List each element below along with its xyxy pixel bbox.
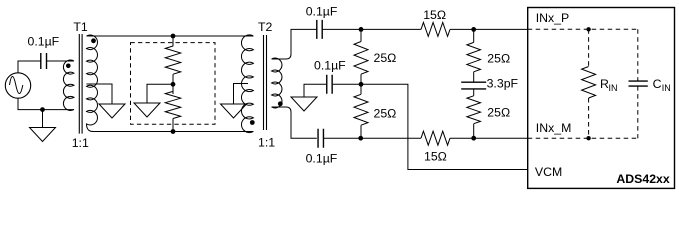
transformer T2 secondary winding [272, 58, 282, 108]
wire bottom 15 ohm to INx_M [450, 137, 528, 139]
node common mode junction [359, 82, 364, 87]
node INx_M shunt [471, 136, 476, 141]
ground (T2 center tap) [221, 104, 247, 118]
resistor 25 ohm (lower right branch) [467, 89, 481, 138]
wire T2 secondary bottom lead [272, 107, 317, 138]
svg-text:0.1µF: 0.1µF [28, 35, 60, 49]
wire capacitor to T1 primary [47, 60, 75, 62]
svg-text:0.1µF: 0.1µF [314, 59, 346, 73]
wire source bottom rail [18, 98, 74, 109]
resistor R_IN [588, 29, 590, 66]
svg-text:0.1µF: 0.1µF [306, 5, 338, 19]
T2 secondary polarity dot [278, 101, 283, 106]
resistor lead lower [172, 119, 174, 132]
capacitor C1 0.1uF (input coupling) [41, 53, 47, 69]
resistor 25 ohm (upper left branch) [354, 29, 368, 84]
wire C2 to 15 ohm [322, 28, 421, 30]
wire top rail T1 to T2 [87, 35, 254, 37]
dashed internal rail INx_P [528, 28, 638, 30]
dashed box (optional termination) [131, 43, 216, 125]
svg-text:INx_M: INx_M [536, 121, 572, 135]
svg-text:C: C [653, 77, 662, 91]
svg-text:25Ω: 25Ω [487, 51, 510, 65]
ground (termination midpoint) [134, 103, 160, 117]
label R_IN [600, 77, 618, 93]
node bottom rail left branch [358, 136, 363, 141]
resistor 25 ohm (upper right branch) [467, 29, 481, 82]
resistor 25 ohm (lower left branch) [354, 84, 368, 138]
wire source top to capacitor [18, 61, 41, 73]
label C_IN [653, 77, 671, 93]
node top rail junction [171, 34, 176, 39]
node R_IN top [586, 27, 590, 31]
source V1 (sine generator) [5, 73, 30, 98]
transformer T2 core [264, 35, 267, 130]
wire T2 primary center tap [234, 84, 249, 105]
node termination midpoint [171, 82, 176, 87]
capacitor C4 0.1uF (bottom coupling) [318, 129, 323, 148]
svg-text:25Ω: 25Ω [487, 106, 510, 120]
capacitor C_IN [637, 29, 639, 81]
T2 primary polarity dot [250, 120, 255, 125]
svg-text:INx_P: INx_P [536, 11, 570, 25]
T1 primary polarity dot [66, 64, 71, 69]
transformer T1 secondary winding [87, 35, 98, 132]
svg-text:1:1: 1:1 [258, 136, 275, 150]
transformer T1 primary winding [63, 60, 74, 110]
svg-text:ADS42xx: ADS42xx [616, 172, 669, 186]
svg-text:T2: T2 [258, 20, 273, 34]
wire C4 to bottom 15 ohm [324, 137, 421, 139]
wire VCM from common mode node [361, 84, 528, 169]
wire C3 to common mode node [333, 83, 361, 85]
resistor (termination lower) [165, 84, 180, 118]
ground (T1 center tap) [99, 104, 125, 118]
node bottom rail junction [171, 129, 176, 134]
capacitor 3.3pF [461, 82, 486, 89]
node INx_P shunt [471, 27, 476, 32]
resistor 15 ohm (top series) [421, 22, 450, 36]
wire T1 secondary center tap [87, 84, 113, 104]
node 25 ohm top [359, 27, 364, 32]
dashed internal rail INx_M [528, 137, 638, 139]
wire 15 ohm to INx_P [450, 28, 528, 30]
wire T2 secondary top lead [272, 29, 317, 59]
svg-text:T1: T1 [73, 20, 88, 34]
svg-text:IN: IN [662, 83, 671, 93]
svg-text:1:1: 1:1 [72, 136, 89, 150]
svg-text:15Ω: 15Ω [423, 8, 446, 22]
ground (common-mode bypass) [291, 97, 317, 111]
wire bottom rail T1 to T2 [92, 131, 253, 133]
svg-text:0.1µF: 0.1µF [306, 152, 338, 166]
node junction source ground [40, 107, 45, 112]
wire midpoint to ground [147, 84, 173, 103]
T1 secondary polarity dot [91, 38, 96, 43]
capacitor C2 0.1uF (top coupling) [317, 20, 322, 39]
node R_IN bottom [586, 136, 590, 140]
ADS42xx box [528, 8, 675, 189]
resistor (termination upper) [165, 36, 180, 74]
svg-text:3.3pF: 3.3pF [487, 77, 519, 91]
transformer T1 core [79, 34, 82, 134]
svg-text:VCM: VCM [535, 165, 562, 179]
wire C3 to ground [304, 84, 326, 97]
svg-text:IN: IN [609, 83, 618, 93]
transformer T2 primary winding [241, 35, 253, 133]
ground (source) [30, 110, 56, 142]
svg-text:15Ω: 15Ω [424, 149, 447, 163]
resistor lead [172, 74, 174, 84]
capacitor C3 0.1uF (common-mode bypass) [327, 75, 332, 94]
resistor 15 ohm (bottom series) [421, 131, 450, 145]
svg-text:25Ω: 25Ω [374, 51, 397, 65]
svg-text:25Ω: 25Ω [374, 106, 397, 120]
